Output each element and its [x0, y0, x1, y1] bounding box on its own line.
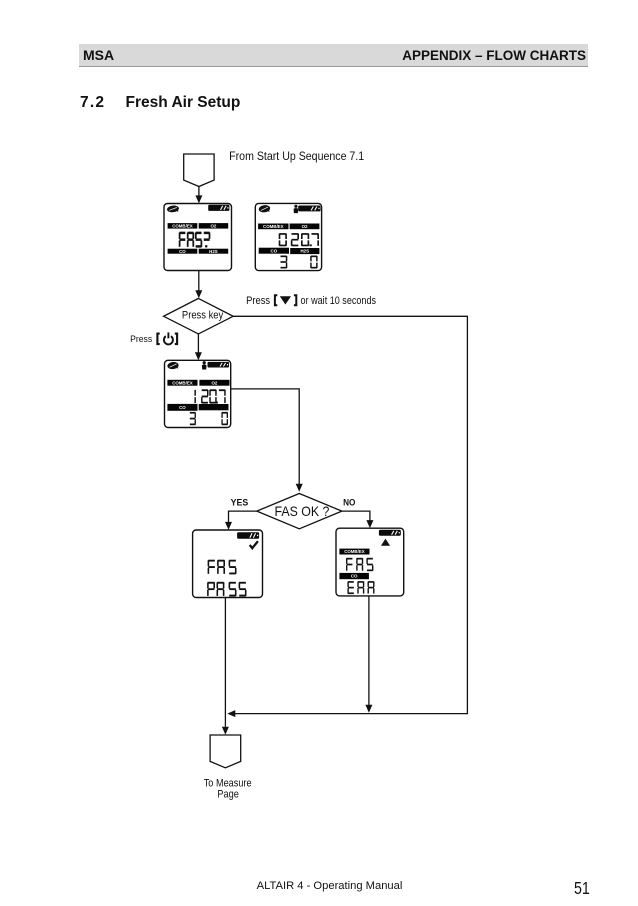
arrowhead ERR into junction [365, 705, 372, 713]
wire display D3 to FAS OK decision [231, 389, 300, 484]
arrowhead into display D1 [195, 195, 202, 203]
svg-text:From Start Up Sequence 7.1: From Start Up Sequence 7.1 [229, 150, 364, 163]
arrowhead into end connector [222, 727, 229, 735]
svg-text:or wait 10 seconds: or wait 10 seconds [301, 295, 376, 307]
label: To Measure Page [204, 778, 252, 801]
arrowhead into ERR display [366, 520, 373, 528]
wire decision to display D3 [197, 334, 199, 353]
label YES [231, 497, 249, 507]
svg-text:O2: O2 [212, 380, 218, 385]
section heading 7.2 Fresh Air Setup [80, 94, 105, 112]
label: Press [power key] [130, 332, 177, 344]
svg-text:Press: Press [130, 334, 152, 345]
svg-text:CO: CO [271, 248, 278, 253]
svg-text:COMB/EX: COMB/EX [172, 223, 193, 228]
decision: Press key [164, 298, 234, 334]
label: Press [down-arrow] or wait 10 seconds [246, 295, 376, 307]
svg-text:O2: O2 [211, 223, 217, 228]
wire decision right to bottom junction [229, 316, 467, 713]
svg-text:FAS OK ?: FAS OK ? [274, 503, 329, 519]
wire YES branch [229, 511, 257, 522]
wire NO branch [342, 511, 370, 520]
wire PASS display to end connector [224, 598, 226, 727]
wire display D1 to decision [198, 271, 200, 292]
page number [574, 878, 590, 899]
arrowhead into decision [195, 290, 202, 298]
display PASS: FAS PASS screen [193, 530, 263, 598]
svg-text:Page: Page [217, 789, 239, 801]
svg-text:COMB/EX: COMB/EX [263, 224, 284, 229]
display ERR: FAS ERR screen [336, 528, 404, 596]
svg-text:YES: YES [231, 497, 249, 507]
svg-text:Press: Press [246, 295, 270, 307]
footer [79, 880, 580, 892]
arrowhead into PASS display [225, 522, 232, 530]
svg-text:COMB/EX: COMB/EX [172, 380, 193, 385]
label: From Start Up Sequence 7.1 [229, 150, 364, 163]
svg-text:Press key: Press key [182, 310, 224, 322]
arrowhead into display D3 [195, 352, 202, 360]
decision: FAS OK ? [257, 494, 342, 529]
label NO [343, 497, 355, 508]
svg-text:O2: O2 [302, 224, 308, 229]
svg-text:CO: CO [179, 405, 186, 410]
svg-text:NO: NO [343, 497, 355, 508]
wire start to display D1 [198, 187, 200, 197]
arrowhead into FAS OK decision [296, 484, 303, 492]
header bar [79, 44, 588, 67]
display D3: measurement screen [165, 360, 231, 427]
svg-text:CO: CO [179, 249, 186, 254]
svg-text:CO: CO [351, 574, 358, 579]
svg-text:H2S: H2S [209, 249, 218, 254]
start connector (from start-up sequence) [184, 154, 214, 187]
end connector (to measure page) [210, 735, 241, 768]
svg-text:COMB/EX: COMB/EX [344, 549, 365, 554]
display D1: FAS? prompt screen [164, 204, 232, 271]
arrowhead into junction (leftwards) [227, 710, 235, 717]
wire ERR display to junction [368, 596, 370, 705]
display D2: fresh air readings screen [255, 203, 321, 270]
svg-text:H2S: H2S [301, 249, 310, 254]
